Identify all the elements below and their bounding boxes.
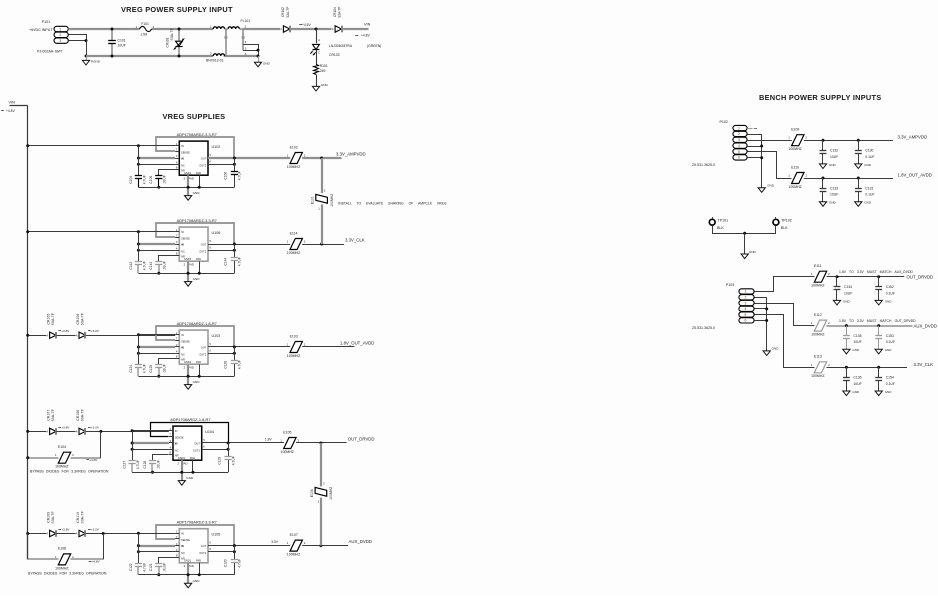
ground GND U106	[185, 282, 192, 287]
svg-text:OUT_DRVDD: OUT_DRVDD	[348, 436, 375, 441]
capacitor C130 0.1UF	[858, 140, 860, 150]
svg-text:E111: E111	[814, 264, 822, 268]
capacitor C124 4.7UF	[137, 368, 139, 377]
capacitor C126 4.7UF output	[234, 347, 236, 361]
svg-text:E104: E104	[58, 445, 66, 449]
svg-text:CR101: CR101	[165, 37, 169, 47]
svg-text:0.1UF: 0.1UF	[865, 193, 874, 197]
svg-text:1.8V: 1.8V	[265, 437, 273, 441]
ferrite bead E112	[814, 320, 826, 331]
svg-text:100MHZ: 100MHZ	[788, 147, 802, 151]
ferrite bead E102	[290, 153, 302, 164]
capacitor C101	[111, 29, 113, 41]
wire sense loop U104	[151, 423, 229, 443]
capacitor C122 4.7UF	[137, 566, 139, 575]
svg-text:GND: GND	[193, 277, 201, 281]
svg-text:PAD: PAD	[196, 257, 201, 261]
svg-text:S0A-TP: S0A-TP	[80, 408, 84, 421]
svg-text:4.7UF: 4.7UF	[136, 460, 140, 469]
ferrite bead E103	[290, 342, 302, 353]
svg-text:PAD: PAD	[188, 177, 194, 181]
svg-text:4.7UF: 4.7UF	[142, 563, 146, 572]
capacitor C143 .01UF	[158, 265, 160, 274]
capacitor C142 4.7UF	[137, 265, 139, 274]
wire left vertical U106	[138, 232, 140, 262]
svg-text:.01UF: .01UF	[163, 261, 167, 270]
svg-text:C122: C122	[129, 563, 133, 571]
capacitor C136 10UF	[846, 367, 848, 377]
svg-text:E113: E113	[814, 355, 822, 359]
wire pin8 U103	[159, 359, 176, 365]
svg-text:U103: U103	[212, 334, 221, 338]
svg-text:CR104: CR104	[333, 7, 337, 17]
svg-text:P101: P101	[42, 20, 50, 24]
svg-text:VIN: VIN	[364, 23, 371, 27]
svg-text:0.1UF: 0.1UF	[886, 382, 895, 386]
capacitor C121 .01UF	[158, 566, 160, 575]
svg-text:OUT2: OUT2	[199, 551, 206, 555]
svg-text:1.8V_OUT_AVDD: 1.8V_OUT_AVDD	[898, 172, 932, 177]
svg-text:FL101: FL101	[241, 19, 251, 23]
svg-text:CR103: CR103	[329, 53, 340, 57]
ground stub U105	[187, 563, 189, 583]
wire CR106 to U103	[86, 335, 175, 337]
svg-text:OUT2: OUT2	[199, 163, 206, 167]
svg-text:4: 4	[745, 307, 747, 311]
ferrite bead E106 vertical	[320, 443, 322, 486]
wire sense loop U102	[156, 137, 234, 158]
svg-text:IN: IN	[181, 243, 184, 247]
svg-text:4.7UF: 4.7UF	[231, 456, 235, 465]
svg-text:GND1: GND1	[178, 456, 186, 460]
wire CR105 to CR106	[56, 335, 75, 337]
svg-text:GND1: GND1	[184, 171, 192, 175]
svg-text:BLK: BLK	[781, 226, 788, 230]
svg-text:4.7UF: 4.7UF	[238, 171, 242, 180]
svg-text:S0A-TP: S0A-TP	[80, 510, 84, 523]
svg-text:3.3V_AMPVDD: 3.3V_AMPVDD	[898, 135, 928, 140]
svg-text:100MHZ: 100MHZ	[329, 487, 333, 500]
wire CR109 to CR110	[56, 533, 75, 535]
svg-text:.01UF: .01UF	[163, 175, 167, 184]
svg-text:+3.2V: +3.2V	[91, 425, 100, 429]
svg-text:PAD: PAD	[188, 366, 194, 370]
wire pin4 U104	[132, 449, 169, 451]
wire ground rail U106	[138, 273, 234, 275]
svg-text:GND: GND	[885, 390, 893, 394]
wire P102 pins 2,4,6 to GND	[748, 135, 762, 188]
svg-text:100MHZ: 100MHZ	[287, 354, 301, 358]
svg-text:U106: U106	[212, 231, 221, 235]
diode CR110	[79, 530, 85, 536]
capacitor C125 .01UF	[158, 368, 160, 377]
svg-text:10UF: 10UF	[853, 382, 861, 386]
svg-text:A: A	[76, 430, 78, 434]
capacitor C152 0.1UF	[878, 277, 880, 287]
svg-text:GND: GND	[864, 163, 872, 167]
wire left vertical U103	[138, 335, 140, 365]
svg-text:IN: IN	[181, 333, 184, 337]
svg-text:IN: IN	[181, 144, 184, 148]
svg-text:CR109: CR109	[46, 512, 50, 523]
svg-text:IN: IN	[181, 532, 184, 536]
ground stub U103	[187, 364, 189, 384]
diode CR104	[335, 26, 341, 32]
svg-text:C143: C143	[149, 262, 153, 270]
wire 1.8V_OUT_AVDD bench	[804, 178, 893, 180]
svg-text:NC: NC	[181, 551, 185, 555]
svg-text:GND: GND	[829, 201, 837, 205]
wire pin8 U104	[153, 455, 169, 461]
svg-text:E101: E101	[311, 196, 315, 204]
wire VIN bus	[10, 105, 28, 107]
LED CR103	[316, 29, 318, 43]
svg-text:1.8V TO 3.3V MUST MAT: 1.8V TO 3.3V MUST MATCH OUT_DRVDD	[839, 319, 916, 323]
svg-text:PAD: PAD	[196, 171, 201, 175]
ground GND U105	[185, 583, 192, 588]
svg-text:NC: NC	[181, 163, 185, 167]
wire CR107 to CR108	[56, 431, 75, 433]
capacitor C134 10UF	[836, 277, 838, 287]
wire OUT2 U103	[208, 353, 234, 355]
wire PAD pin U106	[199, 261, 201, 273]
svg-text:P103: P103	[726, 283, 734, 287]
wire OUT2 U106	[208, 250, 234, 252]
ground stub U106	[187, 261, 189, 281]
svg-text:+3.8V: +3.8V	[61, 528, 70, 532]
svg-text:OUT: OUT	[201, 242, 207, 246]
wire PAD pin U102	[199, 175, 201, 187]
svg-text:C154: C154	[886, 376, 894, 380]
ferrite bead E101 vertical	[321, 158, 323, 193]
svg-text:.01UF: .01UF	[163, 563, 167, 572]
wire pin3 U106	[138, 243, 175, 245]
svg-text:E114: E114	[290, 231, 298, 235]
svg-text:LNJ306G8TRA: LNJ306G8TRA	[329, 44, 353, 48]
svg-text:.01UF: .01UF	[156, 460, 160, 469]
svg-text:GND: GND	[193, 380, 201, 384]
wire ground rail U102	[138, 187, 234, 189]
ferrite bead E108 bypass	[27, 534, 29, 560]
svg-text:BNX012-01: BNX012-01	[206, 58, 224, 62]
wire output net U104	[296, 442, 347, 444]
svg-text:S0A-TP: S0A-TP	[80, 312, 84, 325]
svg-text:NC: NC	[181, 249, 185, 253]
capacitor C127 4.7UF	[131, 464, 133, 473]
svg-text:C: C	[318, 51, 320, 55]
wire input feed U106	[138, 231, 175, 233]
testpoint TP102	[773, 219, 779, 225]
svg-text:(GREEN): (GREEN)	[367, 44, 381, 48]
svg-text:GND1: GND1	[184, 257, 192, 261]
svg-text:+3.8V: +3.8V	[61, 425, 70, 429]
testpoint TP101	[709, 219, 715, 225]
svg-text:ADP1708ARDZ-3.3-R7: ADP1708ARDZ-3.3-R7	[177, 218, 217, 223]
svg-text:+4.8V: +4.8V	[361, 34, 371, 38]
svg-text:10UF: 10UF	[844, 291, 852, 295]
svg-text:CR107: CR107	[46, 410, 50, 421]
capacitor C132 10UF	[822, 140, 824, 150]
capacitor C129 4.7UF output	[228, 443, 230, 457]
svg-text:IN: IN	[181, 544, 184, 548]
wire 3.3V_CLK bench row	[827, 367, 908, 369]
svg-text:SENSE: SENSE	[181, 151, 190, 155]
svg-text:GND: GND	[864, 201, 872, 205]
svg-text:100MHZ: 100MHZ	[55, 566, 69, 570]
capacitor C144 4.7UF output	[234, 244, 236, 258]
svg-text:100MHZ: 100MHZ	[788, 185, 802, 189]
svg-text:+3.2V: +3.2V	[91, 329, 100, 333]
svg-text:ADP1708ARDZ-3.3-R7: ADP1708ARDZ-3.3-R7	[177, 519, 217, 524]
svg-text:1.8V_OUT_AVDD: 1.8V_OUT_AVDD	[340, 340, 374, 345]
wire R101 to GND	[316, 75, 318, 86]
svg-text:GND: GND	[885, 348, 893, 352]
wire pin8 U105	[159, 558, 176, 564]
svg-text:A: A	[332, 27, 334, 31]
svg-text:4.7UF: 4.7UF	[142, 261, 146, 270]
svg-text:1.8V TO 3.3V MUST MAT: 1.8V TO 3.3V MUST MATCH AUX_DVDD	[839, 270, 913, 274]
wire left vertical U102	[138, 146, 140, 176]
wire output net U103	[302, 346, 354, 348]
wire input feed U102	[138, 145, 175, 147]
svg-text:6: 6	[738, 156, 740, 160]
svg-text:2: 2	[738, 132, 740, 136]
wire OUT U103	[208, 346, 290, 348]
wire E108 up to diode node	[103, 534, 105, 560]
svg-text:+4.8V: +4.8V	[92, 560, 101, 564]
svg-text:C129: C129	[217, 457, 221, 465]
svg-text:F101: F101	[141, 22, 149, 26]
svg-text:C120: C120	[224, 559, 228, 567]
svg-text:E102: E102	[290, 145, 298, 149]
ground PGND	[86, 56, 88, 60]
svg-text:SENSE: SENSE	[175, 436, 184, 440]
wire ground rail U103	[138, 376, 234, 378]
svg-text:100MHZ: 100MHZ	[287, 553, 301, 557]
svg-text:10UF: 10UF	[853, 340, 861, 344]
regulator U104 ADP1708ARDZ-1.8-R7	[173, 426, 202, 460]
wire OUT U104	[202, 442, 284, 444]
wire ground rail U105	[138, 574, 234, 576]
svg-text:AUX_DVDD: AUX_DVDD	[349, 539, 372, 544]
wire P103 pin1 to E111	[755, 277, 815, 292]
svg-text:100MHZ: 100MHZ	[55, 465, 69, 469]
svg-text:PAD: PAD	[190, 456, 195, 460]
svg-text:PGND: PGND	[91, 59, 101, 63]
wire OUT_DRVDD bench row	[827, 276, 905, 278]
svg-text:OUT2: OUT2	[193, 448, 200, 452]
svg-text:NC: NC	[175, 448, 179, 452]
svg-text:C101: C101	[118, 39, 126, 43]
svg-text:100MHZ: 100MHZ	[811, 284, 825, 288]
wire bus to U102	[28, 145, 176, 147]
svg-text:C121: C121	[149, 563, 153, 571]
wire left vertical U104	[132, 431, 134, 461]
svg-text:GND: GND	[767, 183, 775, 187]
svg-text:C144: C144	[224, 258, 228, 266]
svg-text:VIN: VIN	[9, 100, 16, 104]
capacitor C120 4.7UF output	[234, 546, 236, 560]
EMI filter FL101 BNX012-01	[213, 27, 224, 29]
wire OUT2 U105	[208, 551, 234, 553]
svg-text:3.3V_CLK: 3.3V_CLK	[914, 362, 934, 367]
svg-text:CR105: CR105	[46, 313, 50, 324]
svg-text:C134: C134	[844, 285, 852, 289]
svg-text:C135: C135	[853, 334, 861, 338]
junction OUT_DRVDD / E106	[319, 442, 322, 445]
wire OUT U102	[208, 157, 290, 159]
wire bottom rail	[86, 55, 213, 57]
capacitor C105 .01UF	[158, 179, 160, 188]
wire pin3 U104	[132, 442, 169, 444]
svg-text:OUT2: OUT2	[199, 249, 206, 253]
svg-text:S2A-TP: S2A-TP	[338, 7, 342, 18]
svg-text:0.1UF: 0.1UF	[865, 155, 874, 159]
wire pin3 U102	[138, 157, 175, 159]
svg-text:GND: GND	[772, 347, 780, 351]
ground GND U104	[178, 481, 185, 486]
ferrite bead E104 bypass	[28, 457, 59, 459]
capacitor C104 4.7UF	[138, 179, 140, 188]
capacitor C133 10UF	[822, 178, 824, 188]
svg-text:C105: C105	[149, 176, 153, 184]
wire sense loop U106	[156, 223, 234, 244]
svg-text:E112: E112	[814, 313, 822, 317]
svg-text:SENSE: SENSE	[181, 340, 190, 344]
wire pin4 U102	[138, 164, 175, 166]
wire CR108 to U104	[86, 431, 169, 433]
regulator U103 ADP1708ARDZ-1.8-R7	[179, 330, 208, 364]
TVS diode CR101	[178, 29, 180, 41]
svg-text:+3.8V: +3.8V	[61, 329, 70, 333]
svg-text:GND1: GND1	[184, 559, 192, 563]
wire CR102 to CR104, node +4.5V	[290, 28, 332, 30]
capacitor C131 0.1UF	[858, 178, 860, 188]
ferrite bead E111	[814, 271, 826, 282]
svg-text:1.5A: 1.5A	[140, 32, 148, 36]
ferrite bead E105	[284, 438, 296, 449]
svg-text:3.3V_AMPVDD: 3.3V_AMPVDD	[336, 151, 366, 156]
ferrite bead E107	[290, 540, 302, 551]
svg-text:A: A	[280, 27, 282, 31]
svg-text:100MHZ: 100MHZ	[287, 251, 301, 255]
svg-text:E106: E106	[310, 489, 314, 497]
svg-text:U104: U104	[205, 430, 214, 434]
svg-text:4.7UF: 4.7UF	[238, 257, 242, 266]
wire P103 pin3 to E112	[755, 304, 815, 326]
ground GND testpoints	[741, 254, 748, 259]
wire output net U102	[302, 157, 341, 159]
svg-text:VREG POWER SUPPLY INPUT: VREG POWER SUPPLY INPUT	[121, 5, 233, 14]
svg-text:C153: C153	[886, 334, 894, 338]
svg-text:100MHZ: 100MHZ	[287, 165, 301, 169]
wire pin4 U103	[138, 353, 175, 355]
svg-text:C125: C125	[149, 365, 153, 373]
svg-text:SENSE: SENSE	[181, 237, 190, 241]
junction 3.3V_CLK / E101	[320, 243, 323, 246]
svg-text:R101: R101	[320, 64, 328, 68]
svg-text:BYPASS DIODES FOR 3.3VRE: BYPASS DIODES FOR 3.3VREG OPERATION	[30, 470, 109, 474]
wire P102 pin5 to E110	[748, 152, 792, 179]
wire output net U105	[302, 545, 348, 547]
svg-text:E108: E108	[58, 547, 66, 551]
wire input feed U104	[132, 430, 169, 432]
resistor R101	[314, 64, 319, 75]
svg-text:E109: E109	[791, 128, 799, 132]
wire pin8 U106	[159, 256, 176, 262]
svg-text:1: 1	[59, 27, 61, 31]
wire input feed U103	[138, 334, 175, 336]
svg-text:3.3V: 3.3V	[271, 540, 279, 544]
connector P103	[739, 289, 754, 294]
svg-text:3: 3	[745, 301, 747, 305]
wire ground rail U104	[132, 472, 228, 474]
svg-text:GND: GND	[749, 250, 757, 254]
svg-text:TP102: TP102	[781, 219, 792, 223]
svg-text:E103: E103	[290, 334, 298, 338]
svg-text:GND: GND	[843, 299, 851, 303]
svg-text:C104: C104	[129, 176, 133, 184]
svg-text:C133: C133	[830, 186, 838, 190]
diode CR108	[79, 428, 85, 434]
wire OUT U106	[208, 244, 290, 246]
ferrite bead E110	[792, 173, 804, 184]
svg-text:CR110: CR110	[76, 512, 80, 523]
svg-text:2: 2	[59, 33, 61, 37]
svg-text:249: 249	[320, 69, 326, 73]
diode CR102	[283, 26, 289, 32]
ground stub U104	[181, 460, 183, 480]
wire PAD pin U103	[199, 364, 201, 376]
diode CR105	[50, 332, 56, 338]
svg-text:S0A-TP: S0A-TP	[170, 27, 174, 40]
svg-text:3.3V_CLK: 3.3V_CLK	[345, 237, 365, 242]
svg-text:OUT: OUT	[201, 345, 207, 349]
svg-text:PAD: PAD	[196, 360, 201, 364]
svg-text:3: 3	[59, 39, 61, 43]
svg-text:0.1UF: 0.1UF	[886, 291, 895, 295]
svg-text:PAD: PAD	[188, 564, 194, 568]
svg-text:PAD: PAD	[196, 559, 201, 563]
wire left vertical U105	[138, 533, 140, 563]
svg-text:1: 1	[738, 126, 740, 130]
svg-text:TP101: TP101	[718, 219, 729, 223]
svg-text:OUT: OUT	[201, 544, 207, 548]
svg-text:GND: GND	[263, 61, 271, 65]
svg-text:10UF: 10UF	[830, 193, 838, 197]
svg-text:100MHZ: 100MHZ	[281, 450, 295, 454]
wire pin4 U105	[138, 551, 175, 553]
svg-text:GND: GND	[829, 163, 837, 167]
svg-text:4.7UF: 4.7UF	[238, 559, 242, 568]
svg-text:0.1UF: 0.1UF	[886, 340, 895, 344]
svg-text:PJ-002AH-SMT: PJ-002AH-SMT	[37, 49, 63, 53]
wire sense loop U105	[156, 525, 234, 546]
svg-text:SENSE: SENSE	[181, 538, 190, 542]
svg-text:2: 2	[745, 295, 747, 299]
ferrite bead E114	[290, 239, 302, 250]
fuse F101	[140, 26, 152, 31]
svg-text:C130: C130	[865, 149, 873, 153]
wire OUT2 U104	[202, 449, 228, 451]
svg-text:C126: C126	[224, 361, 228, 369]
wire output net U106	[302, 244, 344, 246]
svg-text:+4.8V: +4.8V	[6, 109, 16, 113]
regulator U106 ADP1708ARDZ-3.3-R7	[179, 227, 208, 261]
capacitor C135 10UF	[846, 326, 848, 336]
svg-text:5: 5	[738, 150, 740, 154]
wire FL101 to CR102	[250, 28, 280, 30]
